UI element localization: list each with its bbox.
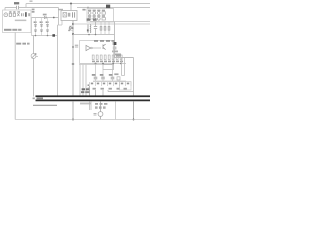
box around right terminals	[120, 82, 132, 91]
bus line N	[36, 99, 151, 101]
EMI filter box	[3, 10, 32, 33]
cap column	[95, 22, 97, 35]
cap X	[17, 13, 19, 16]
node dots on y34.5	[88, 34, 90, 36]
cap symbols	[94, 77, 98, 79]
transistor Q1	[103, 44, 106, 49]
wire stub	[4, 8, 6, 11]
stub box pin	[61, 21, 63, 26]
wire y63.5	[80, 63, 126, 65]
node top junction	[25, 4, 27, 8]
label 230V	[16, 43, 21, 45]
meter circle	[98, 112, 103, 117]
drops to bus	[96, 90, 104, 97]
label C10	[14, 2, 19, 4]
bottom earth wire	[15, 119, 150, 121]
wire y25	[58, 24, 63, 26]
terminal row2 labels	[93, 88, 127, 90]
vertical x133.5	[133, 58, 135, 97]
wire top-left mains	[5, 7, 59, 9]
diode matrix col1	[36, 18, 48, 36]
relay box K1	[61, 11, 77, 21]
wire N	[32, 17, 59, 19]
vertical x57.5	[57, 25, 59, 97]
labels right mid	[116, 55, 121, 57]
right pair verticals	[122, 58, 125, 76]
label above box	[58, 9, 63, 11]
wire inside	[92, 47, 101, 49]
junction on long vertical	[72, 63, 74, 65]
transformer winding	[88, 25, 91, 34]
long vertical center	[72, 21, 74, 97]
terminal row	[91, 83, 129, 85]
row1 components	[88, 12, 91, 15]
current source circle	[31, 54, 36, 59]
node dot2	[72, 33, 74, 35]
main control box	[80, 41, 114, 65]
vertical with source	[33, 36, 35, 97]
small box below	[103, 65, 114, 70]
marks	[28, 13, 30, 16]
wire bottom of matrix	[32, 35, 58, 37]
vertical x73 below bus	[72, 102, 74, 120]
bus end marks	[33, 98, 35, 100]
bottom cluster comps	[95, 106, 98, 108]
bus label below	[80, 103, 91, 105]
cap on left vertical	[75, 45, 78, 47]
contact bars	[73, 12, 75, 17]
top rail second	[77, 7, 150, 9]
label tick	[30, 0, 33, 2]
transistor blob	[70, 26, 73, 30]
junction dark blob	[52, 34, 55, 37]
node dots	[35, 35, 37, 37]
colon marks	[88, 84, 89, 86]
vertical x115.5 below bus	[115, 102, 117, 120]
inductor L1	[9, 13, 11, 16]
label D1	[43, 14, 47, 16]
fuse label dark above bus	[82, 88, 85, 90]
inductor L2	[13, 13, 15, 16]
row1 labels	[88, 10, 91, 12]
resistor row in box	[92, 55, 122, 60]
wire y91.5	[108, 90, 134, 92]
gray line under bus left	[33, 104, 57, 106]
left edge matrix	[31, 18, 33, 36]
opamp U1	[86, 45, 91, 50]
plug circle	[4, 13, 8, 17]
feed from top rail	[70, 4, 72, 11]
junction	[53, 17, 55, 19]
cap Y	[22, 13, 24, 16]
top labels	[94, 40, 98, 42]
diode matrix labels	[34, 21, 37, 23]
diode D1	[44, 16, 46, 18]
double vertical left of labels	[89, 86, 91, 97]
wire y34	[73, 34, 115, 36]
gray text band	[4, 29, 12, 31]
inner marks	[68, 13, 71, 17]
double vertical below bus	[90, 102, 92, 111]
dark connector	[25, 12, 27, 17]
row labels	[92, 61, 123, 63]
bottom cluster labels	[95, 103, 98, 105]
wire y57.5	[115, 57, 134, 59]
label F right of box	[82, 9, 85, 11]
wire corner right	[58, 8, 60, 26]
bus start label	[37, 97, 44, 99]
bus line L	[36, 95, 151, 97]
wire y24	[73, 23, 150, 25]
row2 labels	[88, 15, 91, 17]
vertical x114.5	[114, 22, 116, 58]
row2 components	[88, 17, 91, 20]
right cluster box	[87, 9, 114, 23]
labels T1 C5	[87, 18, 91, 20]
extra comp	[117, 77, 120, 80]
res columns	[101, 22, 109, 35]
text row inside	[15, 20, 26, 22]
cap drops	[96, 64, 113, 77]
three verticals to bus	[80, 65, 86, 97]
cap labels	[92, 74, 96, 76]
wire top rail	[26, 3, 150, 5]
dark junction blob	[113, 42, 117, 45]
pin labels	[32, 9, 35, 11]
extra comp label	[114, 73, 118, 75]
capacitor C10	[17, 6, 19, 9]
vertical x133.5 below bus	[133, 102, 135, 120]
wire y21.5	[90, 21, 150, 23]
label above	[9, 11, 11, 13]
lamp inner	[63, 13, 67, 18]
wire y81	[93, 80, 126, 82]
dark switch blob	[106, 5, 110, 9]
node dot	[72, 23, 74, 25]
marks below	[113, 47, 117, 50]
vertical left main	[14, 33, 16, 120]
vertical to meter	[100, 102, 102, 112]
